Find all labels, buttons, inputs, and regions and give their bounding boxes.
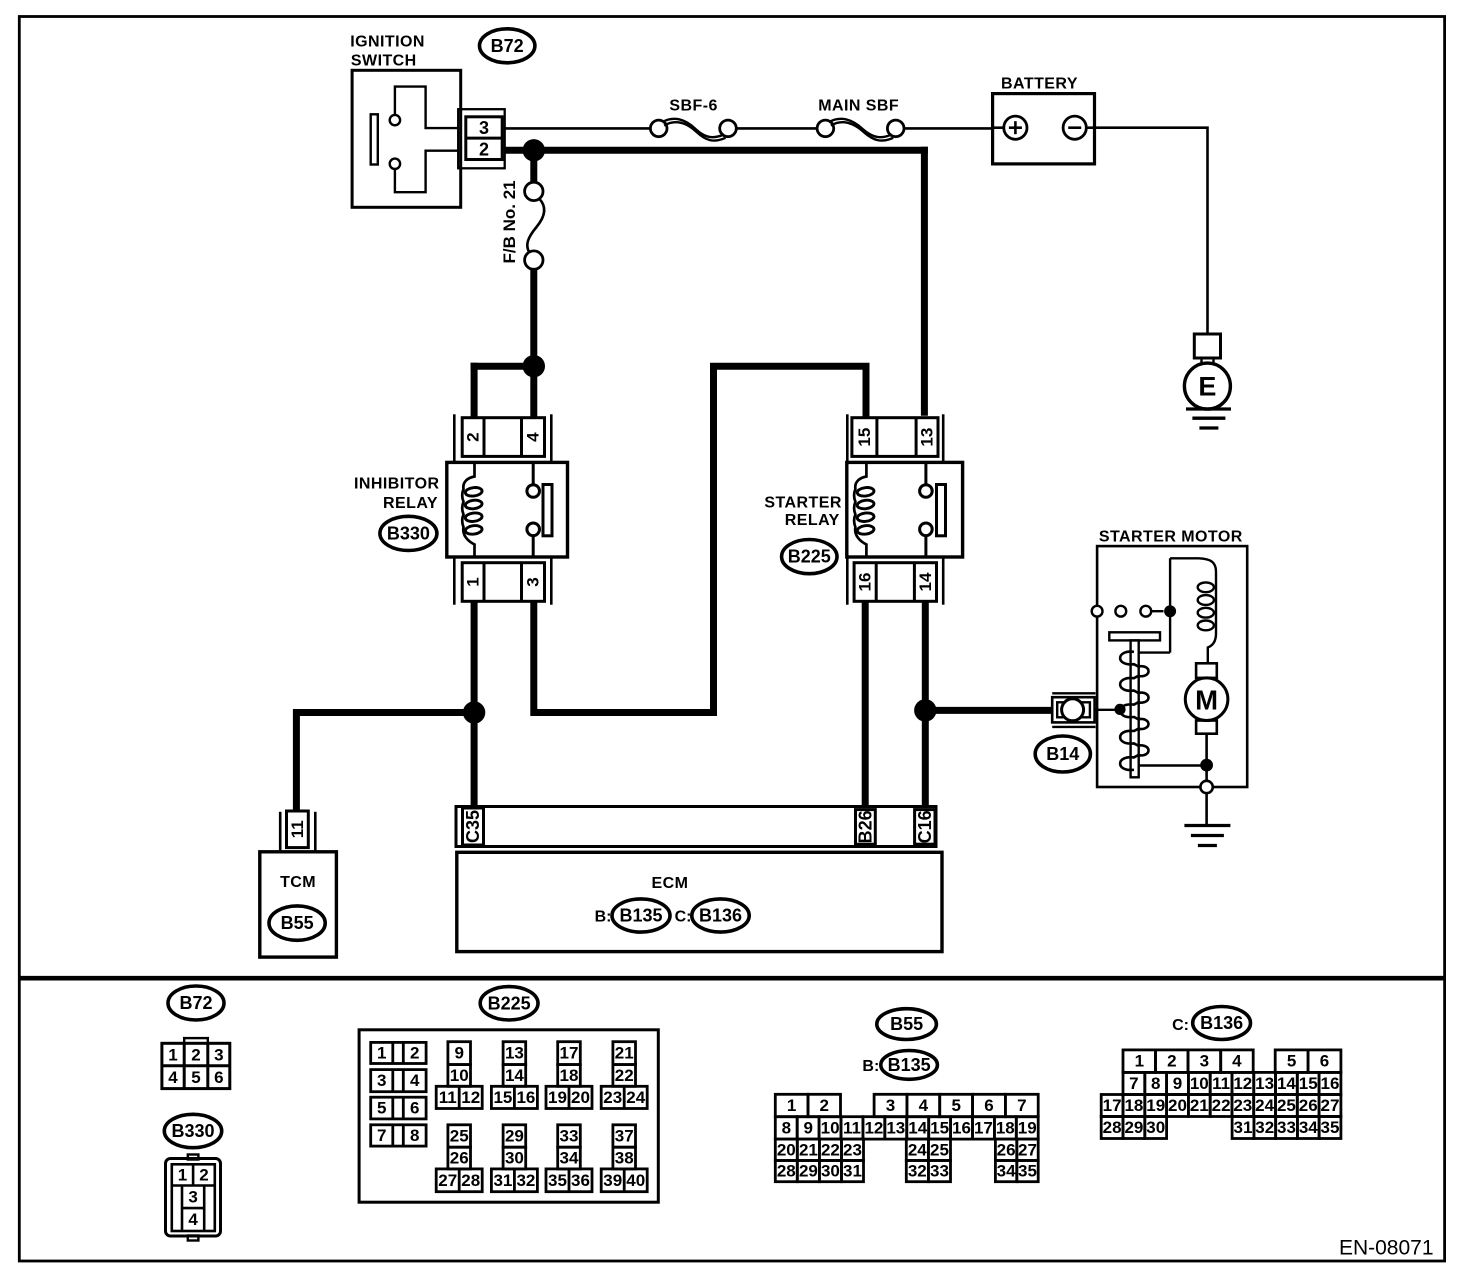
junction motor / plunger ground [1200, 759, 1213, 772]
svg-text:14: 14 [908, 1118, 927, 1137]
svg-text:2: 2 [819, 1096, 828, 1115]
junction above inhibitor relay [523, 355, 545, 377]
inhibitor relay body [447, 462, 568, 557]
svg-text:22: 22 [615, 1066, 634, 1085]
wire starter relay pin14 to ECM C16 [922, 600, 929, 807]
ECM terminal C16 [915, 810, 935, 845]
svg-text:13: 13 [505, 1044, 524, 1063]
node on plunger [1114, 704, 1125, 715]
wire junction to inhibitor relay pin 4 [530, 366, 537, 418]
svg-text:29: 29 [799, 1162, 818, 1181]
connector B72 pinout [162, 1038, 230, 1089]
ECM terminal C16 label [915, 810, 935, 843]
svg-text:2: 2 [191, 1045, 200, 1064]
inhibitor relay top connector box [462, 418, 544, 457]
solenoid return spring [1120, 652, 1148, 770]
wire node to case terminal [1205, 765, 1208, 781]
svg-text:16: 16 [856, 573, 875, 592]
svg-text:B72: B72 [491, 36, 524, 56]
svg-text:16: 16 [1321, 1074, 1340, 1093]
svg-text:7: 7 [1017, 1096, 1026, 1115]
svg-text:15: 15 [855, 428, 874, 447]
solenoid contact point B [1140, 606, 1151, 617]
B330 pin 2 [199, 1166, 208, 1185]
svg-text:28: 28 [1103, 1118, 1122, 1137]
svg-text:F/B No. 21: F/B No. 21 [500, 180, 519, 263]
pinout oval B225 [480, 987, 538, 1020]
svg-text:25: 25 [1277, 1096, 1296, 1115]
svg-text:2: 2 [464, 432, 483, 441]
wire plunger to ground node [1139, 764, 1207, 766]
svg-text:INHIBITOR: INHIBITOR [354, 476, 440, 493]
ignition switch contact lower [390, 159, 400, 169]
starter relay pin 14 label [916, 572, 935, 591]
svg-text:3: 3 [479, 118, 489, 138]
junction pin14 / B14 / C16 [914, 699, 936, 721]
svg-text:20: 20 [1168, 1096, 1187, 1115]
connector B14 [1052, 693, 1095, 727]
svg-text:30: 30 [505, 1149, 524, 1168]
B72 pin 1 [168, 1045, 177, 1064]
svg-text:1: 1 [178, 1166, 187, 1185]
svg-text:28: 28 [777, 1162, 796, 1181]
svg-text:10: 10 [1190, 1074, 1209, 1093]
ignition switch actuator bar [371, 114, 378, 164]
svg-text:M: M [1195, 685, 1218, 716]
svg-text:7: 7 [1129, 1074, 1138, 1093]
svg-text:2: 2 [1167, 1052, 1176, 1071]
wire SBF-6 to MAIN SBF [737, 127, 817, 130]
ignition switch SW1 box [352, 70, 461, 207]
svg-text:B330: B330 [171, 1121, 214, 1141]
B225 pins 5-6 [371, 1097, 426, 1119]
svg-text:1: 1 [787, 1096, 796, 1115]
svg-text:33: 33 [1277, 1118, 1296, 1137]
B225 pins 7-8 [371, 1125, 426, 1146]
connector B72 on ignition switch [458, 109, 505, 168]
starter relay contact [920, 462, 946, 557]
svg-text:8: 8 [1151, 1074, 1160, 1093]
svg-text:37: 37 [615, 1127, 634, 1146]
svg-text:12: 12 [864, 1118, 883, 1137]
pinout designator C: B136 [1172, 1007, 1250, 1040]
svg-text:26: 26 [997, 1140, 1016, 1159]
svg-text:EN-08071: EN-08071 [1339, 1237, 1434, 1260]
field coil [1198, 558, 1216, 663]
svg-text:1: 1 [168, 1045, 177, 1064]
inhibitor relay bottom connector rails [454, 558, 551, 605]
svg-text:B225: B225 [788, 547, 831, 567]
wire motor to ground node [1205, 734, 1208, 760]
B72 pin 6 [214, 1068, 223, 1087]
svg-text:11: 11 [843, 1118, 861, 1137]
battery label [1001, 76, 1078, 93]
svg-text:8: 8 [782, 1118, 791, 1137]
wire contact B to node [1152, 610, 1164, 612]
junction TCM / pin1 / C35 [463, 701, 485, 723]
svg-text:27: 27 [1321, 1096, 1340, 1115]
svg-text:STARTER: STARTER [764, 494, 842, 511]
pinout oval B72 [168, 986, 224, 1020]
svg-text:B136: B136 [699, 906, 742, 926]
svg-text:6: 6 [984, 1096, 993, 1115]
svg-text:C:: C: [675, 909, 692, 926]
B72 pin 5 [191, 1068, 200, 1087]
fuse MAIN SBF [817, 119, 904, 141]
svg-text:4: 4 [168, 1068, 178, 1087]
B225 pins 25-28 [436, 1125, 482, 1192]
svg-text:15: 15 [1299, 1074, 1318, 1093]
svg-text:5: 5 [951, 1096, 960, 1115]
svg-text:6: 6 [410, 1099, 419, 1118]
ground E symbol [1184, 334, 1230, 409]
svg-text:5: 5 [1287, 1052, 1296, 1071]
svg-text:B26: B26 [855, 810, 875, 843]
svg-text:ECM: ECM [652, 875, 689, 892]
svg-text:21: 21 [1190, 1096, 1209, 1115]
svg-text:23: 23 [1233, 1096, 1252, 1115]
starter motor case terminal [1200, 781, 1212, 793]
connector B136 pinout row 1 [1123, 1050, 1341, 1073]
fuse SBF-6 [650, 119, 736, 141]
svg-text:22: 22 [1212, 1096, 1231, 1115]
B330 pin 3 [188, 1188, 197, 1207]
B225 pins 17-20 [546, 1042, 592, 1109]
B225 pins 29-32 [491, 1125, 537, 1192]
svg-text:B135: B135 [888, 1055, 931, 1075]
svg-text:17: 17 [1103, 1096, 1122, 1115]
starter relay coil [854, 462, 874, 557]
wire junction to inhibitor relay pin 2 [471, 363, 538, 418]
svg-text:20: 20 [777, 1140, 796, 1159]
svg-text:25: 25 [930, 1140, 949, 1159]
svg-text:8: 8 [410, 1126, 419, 1145]
svg-text:4: 4 [188, 1210, 198, 1229]
svg-text:STARTER MOTOR: STARTER MOTOR [1099, 529, 1243, 546]
wire starter relay pin16 to ECM B26 [862, 600, 869, 807]
svg-text:B135: B135 [619, 906, 662, 926]
ECM designator B: B135 [595, 899, 670, 932]
ground E earth bars [1186, 409, 1231, 428]
ECM terminal B26 [856, 810, 876, 845]
B225 pins 33-36 [546, 1125, 592, 1192]
B72 pin 3 [214, 1045, 223, 1064]
ECM terminal B26 label [855, 810, 875, 843]
starter relay label [764, 494, 842, 529]
wire junction to connector B14 [925, 707, 1052, 714]
B225 pins 21-24 [601, 1042, 647, 1109]
svg-text:21: 21 [615, 1044, 634, 1063]
svg-text:27: 27 [438, 1171, 457, 1190]
section separator line [19, 976, 1444, 981]
svg-text:C35: C35 [463, 810, 483, 843]
svg-text:6: 6 [214, 1068, 223, 1087]
wire node to field coil [1170, 558, 1199, 652]
inhibitor relay pin 1 label [464, 577, 483, 586]
svg-text:31: 31 [1234, 1118, 1253, 1137]
svg-text:E: E [1198, 372, 1216, 402]
label MAIN SBF [818, 98, 899, 115]
svg-text:5: 5 [377, 1099, 386, 1118]
svg-text:35: 35 [1321, 1118, 1340, 1137]
svg-text:21: 21 [799, 1140, 818, 1159]
inhibitor relay pin 4 label [524, 432, 543, 442]
svg-text:13: 13 [918, 428, 937, 447]
svg-text:SWITCH: SWITCH [351, 53, 417, 70]
inhibitor relay pin 2 label [464, 432, 483, 441]
connector B330 pinout cells [172, 1164, 215, 1231]
svg-text:2: 2 [410, 1044, 419, 1063]
wire TCM pin11 branch [296, 713, 474, 812]
svg-text:9: 9 [1173, 1074, 1182, 1093]
svg-text:RELAY: RELAY [383, 495, 438, 512]
ECM designator C: B136 [675, 899, 750, 932]
relay designator oval B225 [782, 540, 837, 574]
wire F/B No.21 to inhibitor relay junction [530, 269, 537, 370]
ignition switch contact upper [390, 115, 400, 125]
B330 pin 4 [188, 1210, 198, 1229]
connector designator oval B14 [1035, 736, 1090, 772]
wire case terminal to ground [1205, 793, 1208, 825]
wire inhibitor pin1 to ECM C35 [471, 601, 478, 806]
connector B135 pinout row 3 [775, 1139, 1038, 1160]
pinout oval B55 [877, 1009, 937, 1040]
inhibitor relay label [354, 476, 440, 513]
svg-text:27: 27 [1018, 1140, 1037, 1159]
svg-text:1: 1 [464, 577, 483, 586]
ignition switch internal wire to pin 3 [395, 87, 458, 129]
svg-text:9: 9 [803, 1118, 812, 1137]
svg-text:MAIN SBF: MAIN SBF [818, 98, 899, 115]
svg-text:18: 18 [560, 1066, 579, 1085]
connector B136 pinout row 2 [1123, 1072, 1341, 1094]
starter relay body [847, 462, 963, 557]
starter motor ground symbol [1184, 826, 1230, 846]
connector B135 pinout row 2 [775, 1117, 1038, 1139]
solenoid plunger stem [1131, 640, 1139, 777]
svg-text:15: 15 [493, 1088, 512, 1107]
svg-text:22: 22 [821, 1140, 840, 1159]
starter relay top connector box [852, 418, 938, 457]
B225 pins 13-16 [491, 1042, 537, 1109]
svg-text:20: 20 [571, 1088, 590, 1107]
svg-text:11: 11 [288, 820, 307, 838]
wire MAIN SBF to battery positive [904, 127, 993, 130]
svg-text:4: 4 [1232, 1052, 1242, 1071]
svg-text:19: 19 [1146, 1096, 1165, 1115]
starter relay pin 13 label [918, 428, 937, 447]
relay designator oval B330 [380, 516, 437, 550]
solenoid contact point A [1115, 606, 1126, 617]
svg-text:B:: B: [862, 1058, 879, 1075]
svg-text:TCM: TCM [280, 874, 316, 891]
svg-text:4: 4 [919, 1096, 929, 1115]
svg-text:19: 19 [548, 1088, 567, 1107]
inhibitor relay top connector rails [454, 414, 551, 461]
svg-text:34: 34 [997, 1162, 1016, 1181]
B330 pin 1 [178, 1166, 187, 1185]
starter relay bottom connector box [854, 563, 936, 602]
motor M1 upper terminal [1196, 663, 1217, 678]
svg-text:11: 11 [1212, 1074, 1230, 1093]
svg-text:B55: B55 [281, 913, 314, 933]
B225 pins 3-4 [371, 1070, 426, 1092]
wire inhibitor pin3 to starter relay pin15 [534, 366, 866, 712]
starter motor label [1099, 529, 1243, 546]
svg-text:10: 10 [450, 1066, 469, 1085]
starter relay pin 16 label [856, 573, 875, 592]
TCM label [280, 874, 316, 891]
B72 pin 2 [191, 1045, 200, 1064]
svg-text:23: 23 [843, 1140, 862, 1159]
inhibitor relay coil [462, 462, 482, 557]
svg-text:32: 32 [908, 1162, 927, 1181]
svg-text:29: 29 [1124, 1118, 1143, 1137]
motor M1 [1185, 678, 1228, 721]
svg-text:18: 18 [996, 1118, 1015, 1137]
svg-text:3: 3 [886, 1096, 895, 1115]
B72 pin 4 [168, 1068, 178, 1087]
svg-text:30: 30 [1146, 1118, 1165, 1137]
svg-text:B330: B330 [387, 523, 430, 543]
wire pin3 to fuse SBF-6 [505, 127, 651, 130]
svg-text:3: 3 [214, 1045, 223, 1064]
svg-text:28: 28 [461, 1171, 480, 1190]
svg-text:4: 4 [410, 1071, 420, 1090]
ignition switch internal wire to pin 2 [395, 151, 458, 193]
TCM designator oval B55 [269, 906, 325, 940]
svg-text:B72: B72 [179, 993, 212, 1013]
svg-text:32: 32 [1255, 1118, 1274, 1137]
svg-text:C16: C16 [915, 810, 935, 843]
starter relay pin 15 label [855, 428, 874, 447]
battery positive terminal [1004, 116, 1027, 139]
svg-text:3: 3 [524, 577, 543, 586]
svg-text:30: 30 [821, 1162, 840, 1181]
figure number EN-08071 [1339, 1237, 1434, 1260]
wire battery negative to ground E [1095, 128, 1208, 334]
svg-text:2: 2 [479, 139, 489, 159]
ECM box [457, 852, 942, 951]
svg-text:1: 1 [377, 1044, 386, 1063]
svg-text:25: 25 [450, 1127, 469, 1146]
connector B225 pinout box [359, 1030, 658, 1202]
svg-text:24: 24 [1255, 1096, 1274, 1115]
svg-text:1: 1 [1135, 1052, 1144, 1071]
pinout oval B330 [164, 1114, 221, 1147]
svg-text:IGNITION: IGNITION [350, 33, 425, 50]
starter relay top connector rails [847, 414, 943, 461]
svg-text:B136: B136 [1200, 1013, 1243, 1033]
svg-text:24: 24 [626, 1088, 645, 1107]
junction main feed / F/B No.21 [523, 139, 545, 161]
svg-text:34: 34 [560, 1149, 579, 1168]
svg-text:31: 31 [843, 1162, 862, 1181]
svg-text:12: 12 [461, 1088, 480, 1107]
svg-text:11: 11 [439, 1088, 457, 1107]
B225 pins 1-2 [371, 1042, 426, 1063]
connector B135 pinout row 4 [775, 1161, 1038, 1182]
starter relay bottom connector rails [847, 558, 943, 605]
svg-text:38: 38 [615, 1149, 634, 1168]
svg-text:32: 32 [516, 1171, 535, 1190]
svg-text:16: 16 [952, 1118, 971, 1137]
TCM pin 11 label [288, 820, 307, 838]
ECM connector box [456, 807, 936, 847]
svg-text:19: 19 [1018, 1118, 1037, 1137]
motor M1 lower terminal [1196, 721, 1217, 734]
svg-text:16: 16 [516, 1088, 535, 1107]
svg-text:26: 26 [1299, 1096, 1318, 1115]
svg-text:3: 3 [1200, 1052, 1209, 1071]
svg-text:13: 13 [886, 1118, 905, 1137]
fuse F/B No. 21 [525, 182, 545, 269]
connector B136 pinout row 4 [1101, 1117, 1341, 1139]
main feed wire pin2 to starter relay pin13 [505, 147, 928, 416]
ECM terminal C35 label [463, 810, 483, 843]
ECM terminal C35 [463, 808, 484, 845]
connector B330 pinout housing [166, 1155, 221, 1241]
svg-text:24: 24 [908, 1140, 927, 1159]
svg-text:BATTERY: BATTERY [1001, 76, 1078, 93]
svg-text:17: 17 [560, 1044, 579, 1063]
svg-text:15: 15 [930, 1118, 949, 1137]
wire B14 to plunger node [1095, 709, 1120, 711]
svg-text:40: 40 [626, 1171, 645, 1190]
svg-text:39: 39 [603, 1171, 622, 1190]
svg-text:RELAY: RELAY [785, 512, 840, 529]
battery BAT1 [993, 94, 1095, 164]
svg-text:35: 35 [548, 1171, 567, 1190]
svg-text:7: 7 [377, 1126, 386, 1145]
pin 2 label [479, 139, 489, 159]
B225 pins 9-12 [436, 1042, 482, 1109]
svg-text:23: 23 [603, 1088, 622, 1107]
svg-text:10: 10 [821, 1118, 840, 1137]
svg-text:26: 26 [450, 1149, 469, 1168]
inhibitor relay pin 3 label [524, 577, 543, 586]
starter motor box [1097, 546, 1247, 787]
svg-text:14: 14 [505, 1066, 524, 1085]
svg-text:33: 33 [560, 1127, 579, 1146]
TCM box [260, 852, 337, 957]
B225 pins 37-40 [601, 1125, 647, 1192]
TCM connector pin 11 box [287, 811, 309, 848]
svg-text:B14: B14 [1046, 744, 1079, 764]
svg-text:B55: B55 [890, 1014, 923, 1034]
svg-text:SBF-6: SBF-6 [669, 98, 717, 115]
wire junction down to fuse F/B No. 21 [530, 150, 537, 182]
svg-text:17: 17 [974, 1118, 993, 1137]
svg-text:5: 5 [191, 1068, 200, 1087]
svg-text:14: 14 [1277, 1074, 1296, 1093]
svg-text:14: 14 [916, 572, 935, 591]
svg-text:3: 3 [377, 1071, 386, 1090]
connector designator oval B72 [480, 29, 535, 63]
svg-text:4: 4 [524, 432, 543, 442]
pin 3 label [479, 118, 489, 138]
svg-text:B225: B225 [488, 993, 531, 1013]
svg-text:B:: B: [595, 909, 612, 926]
connector B136 pinout row 3 [1101, 1095, 1341, 1117]
TCM connector pin 11 rails [280, 812, 315, 853]
wire node to plunger [1139, 651, 1170, 653]
svg-text:29: 29 [505, 1127, 524, 1146]
svg-text:2: 2 [199, 1166, 208, 1185]
svg-text:18: 18 [1124, 1096, 1143, 1115]
node field coil / contact [1164, 605, 1176, 617]
ignition switch label [350, 33, 425, 69]
